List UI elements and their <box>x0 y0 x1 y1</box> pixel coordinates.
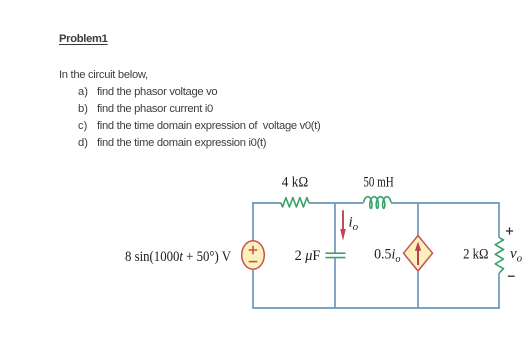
svg-text:2 μF: 2 μF <box>295 248 321 264</box>
wire: top middle segment <box>309 202 364 204</box>
wire: top right segment <box>391 203 500 238</box>
svg-text:2 kΩ: 2 kΩ <box>463 247 489 263</box>
svg-text:0.5io: 0.5io <box>374 247 401 266</box>
wire: left upper <box>252 202 254 241</box>
label minus (vo polarity) <box>508 275 515 277</box>
wire: right lower <box>498 273 500 309</box>
dependent current source D1 diamond <box>404 236 433 272</box>
wire: top-left segment <box>252 202 281 204</box>
wire: dependent source branch lower <box>417 271 419 308</box>
resistor R1 4 kOhm zigzag <box>281 198 309 207</box>
current io arrow <box>342 210 344 232</box>
svg-text:4 kΩ: 4 kΩ <box>282 175 309 191</box>
svg-text:50 mH: 50 mH <box>363 175 394 191</box>
wire: dependent source branch upper <box>417 203 419 236</box>
inductor L1 50 mH coil <box>364 197 391 209</box>
resistor R2 2 kOhm vertical zigzag <box>495 238 503 273</box>
wire: left lower <box>252 269 500 309</box>
capacitor C1 plates <box>326 253 346 257</box>
svg-text:io: io <box>349 215 359 234</box>
voltage source plus sign <box>249 246 258 255</box>
svg-text:8 sin(1000t + 50°) V: 8 sin(1000t + 50°) V <box>125 249 231 265</box>
wire: capacitor branch upper <box>334 203 336 253</box>
dependent source arrow <box>417 250 419 266</box>
voltage source VS1 <box>242 241 265 269</box>
wire: capacitor branch lower <box>334 258 336 308</box>
label plus (vo polarity) <box>506 227 513 234</box>
voltage source minus sign <box>249 261 258 263</box>
svg-text:vo: vo <box>510 246 523 265</box>
